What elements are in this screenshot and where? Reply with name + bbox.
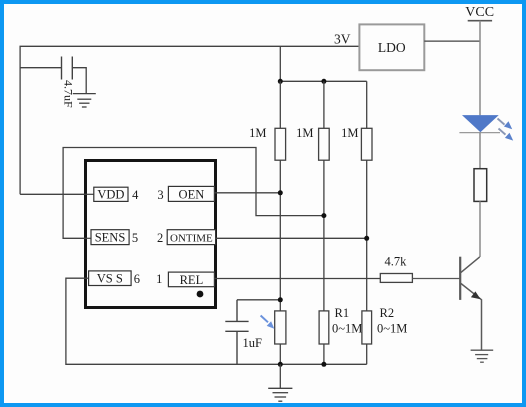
- transistor Q1: [460, 257, 481, 351]
- pin stub VSS: [84, 277, 89, 279]
- svg-text:0~1M: 0~1M: [332, 322, 362, 336]
- wire: LDO output to VCC line: [424, 40, 480, 42]
- junction dot OEN node A: [278, 190, 283, 195]
- svg-text:OEN: OEN: [179, 187, 205, 201]
- svg-text:LDO: LDO: [378, 40, 406, 55]
- wire: top distribution rail: [280, 80, 366, 82]
- svg-text:3V: 3V: [334, 32, 351, 47]
- resistor R2: [362, 311, 372, 344]
- svg-text:1M: 1M: [341, 126, 358, 140]
- wire: column 3 vertical: [366, 81, 368, 364]
- wire: ONTIME pin to node C: [215, 237, 367, 239]
- wire: OEN pin to node A: [214, 192, 280, 194]
- wire: 3V drop to top rail: [279, 46, 281, 81]
- wire: capacitor C2 top connection: [237, 299, 280, 301]
- wire: SENS loop (pin5 to node B): [63, 148, 324, 239]
- svg-text:4.7k: 4.7k: [385, 254, 408, 268]
- junction dot bottom rail col1: [278, 362, 283, 367]
- pin box VDD: [94, 187, 128, 201]
- svg-text:1M: 1M: [296, 126, 313, 140]
- pin box REL: [168, 272, 214, 287]
- wire: C1 to ground: [72, 68, 86, 94]
- svg-text:6: 6: [134, 272, 140, 286]
- adjust arrow on RP: [261, 316, 275, 329]
- junction dot C2 node: [278, 297, 283, 302]
- LED emission arrow 2: [499, 129, 514, 141]
- svg-text:REL: REL: [180, 273, 204, 287]
- svg-text:1: 1: [156, 272, 162, 286]
- wire: REL pin to resistor R3: [214, 278, 380, 280]
- IC U1 body: [86, 161, 216, 308]
- pin box OEN: [168, 186, 214, 201]
- wire: LED to resistor R4: [479, 133, 481, 169]
- pin stub SENS: [84, 237, 91, 239]
- junction dot rail col1: [278, 79, 283, 84]
- svg-text:2: 2: [157, 231, 163, 245]
- svg-text:R2: R2: [380, 306, 395, 320]
- svg-text:R1: R1: [335, 306, 350, 320]
- resistor R4: [474, 169, 487, 202]
- wire: VCC column upper: [479, 21, 481, 116]
- resistor R1: [319, 311, 329, 344]
- wire: 3V rail from left corner to LDO: [20, 46, 359, 194]
- emitter arrowhead: [471, 291, 481, 299]
- svg-text:VCC: VCC: [465, 5, 494, 20]
- capacitor C1 4.7uF: [62, 57, 73, 80]
- wire: R3 to base: [412, 278, 460, 280]
- wire: R4 to collector: [479, 201, 481, 257]
- ground G2: [268, 388, 292, 401]
- svg-text:5: 5: [132, 231, 138, 245]
- junction dot node B: [321, 213, 326, 218]
- pin box ONTIME: [167, 230, 215, 245]
- photoresistor RP (col1 bottom): [275, 311, 286, 344]
- resistor R3 4.7k: [380, 274, 412, 283]
- resistor 1M (col3): [361, 128, 372, 160]
- junction dot bottom rail col2: [321, 362, 326, 367]
- svg-text:VS S: VS S: [97, 272, 123, 286]
- ground G3: [471, 350, 494, 362]
- junction dot rail col2: [321, 79, 326, 84]
- svg-text:1uF: 1uF: [243, 336, 263, 350]
- LDO regulator U2: [359, 24, 424, 70]
- VCC supply bar: [468, 20, 492, 22]
- pin box SENS: [91, 230, 129, 245]
- svg-text:3: 3: [157, 188, 163, 202]
- pin stub VDD: [84, 193, 94, 195]
- LED D1: [462, 115, 499, 132]
- svg-text:4: 4: [132, 188, 139, 202]
- svg-text:SENS: SENS: [95, 231, 126, 245]
- LED emission arrow 1: [498, 119, 513, 130]
- wire: ground stub: [279, 364, 281, 388]
- resistor 1M (col2): [319, 128, 330, 160]
- wire: VSS pin to bottom ground rail: [66, 278, 367, 364]
- LED cathode bar: [459, 132, 500, 134]
- svg-text:VDD: VDD: [97, 188, 124, 202]
- wire: VDD pin to left vertical: [20, 193, 86, 195]
- svg-text:0~1M: 0~1M: [377, 322, 407, 336]
- resistor 1M (col1): [275, 128, 286, 160]
- ground G1: [73, 94, 96, 107]
- wire: column 2 vertical: [323, 81, 325, 364]
- capacitor C2 1uF: [225, 300, 248, 365]
- pin box VSS: [89, 271, 132, 286]
- svg-text:1M: 1M: [249, 126, 266, 140]
- junction dot ONTIME node C: [364, 236, 369, 241]
- pin 1 marker dot: [197, 291, 204, 298]
- svg-text:ONTIME: ONTIME: [170, 233, 213, 245]
- wire: branch to capacitor C1: [20, 67, 61, 69]
- wire: column 1 vertical: [279, 81, 281, 364]
